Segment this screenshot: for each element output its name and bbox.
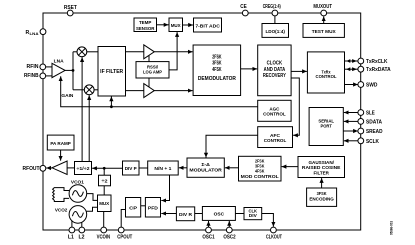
VCO2 [69, 206, 87, 224]
LO line to mixer Q [88, 95, 90, 161]
pin CLKOUT [271, 227, 277, 233]
pin SCLK [358, 138, 364, 144]
chip boundary [43, 13, 361, 230]
div r block [176, 207, 194, 221]
pin SREAD [358, 128, 364, 134]
wire rf divider to pa [67, 167, 74, 169]
svg-text:ENCODING: ENCODING [309, 197, 334, 203]
limiter amp Q [144, 84, 155, 98]
svg-text:RFIN: RFIN [27, 64, 39, 70]
wire CREG stub [274, 16, 276, 24]
svg-text:7-BIT ADC: 7-BIT ADC [195, 24, 220, 30]
svg-text:SREAD: SREAD [366, 129, 383, 135]
wire cdr to afc [291, 78, 299, 135]
mixer Q [84, 85, 94, 95]
n/n+1 block [148, 161, 179, 175]
wire IF to limiter I [126, 51, 144, 53]
svg-text:SLE: SLE [366, 111, 375, 117]
svg-text:MOD CONTROL: MOD CONTROL [241, 174, 279, 180]
RSSI log amp block [136, 62, 169, 78]
svg-text:RFOUT: RFOUT [23, 166, 41, 172]
svg-text:AGC: AGC [269, 106, 279, 112]
wire mixer I to IF filter [87, 51, 98, 53]
wire RSSI to ADC mux [169, 32, 177, 70]
pin MUXOUT [321, 10, 327, 16]
svg-text:2FSK: 2FSK [212, 54, 222, 60]
svg-text:TEMP: TEMP [139, 20, 152, 26]
wire vcoin to mux [103, 212, 105, 228]
svg-text:3FSK: 3FSK [212, 61, 222, 67]
svg-text:05866-001: 05866-001 [389, 221, 393, 235]
wire mixer Q to IF filter [94, 89, 98, 91]
pin RFINB [40, 73, 46, 79]
svg-text:CP: CP [129, 205, 138, 211]
svg-text:RECOVERY: RECOVERY [263, 73, 287, 79]
svg-text:RSET: RSET [64, 5, 78, 11]
svg-text:AND DATA: AND DATA [264, 67, 286, 73]
mixer I [77, 47, 87, 57]
cp block [126, 198, 141, 218]
wire L2 [81, 223, 83, 228]
wire vco1 to mux [87, 194, 98, 201]
serial port block [309, 108, 343, 146]
wire sdata [344, 120, 358, 122]
wire sread [343, 130, 358, 132]
pin OSC2 [226, 227, 232, 233]
wire sigma delta to n divider [179, 167, 187, 169]
svg-text:RFINB: RFINB [24, 73, 39, 79]
wire RFINB stub [46, 75, 52, 77]
LO line to mixer I [81, 57, 83, 161]
wire sclk [344, 140, 358, 142]
svg-text:OSC: OSC [214, 212, 225, 218]
wire demod to cdr [241, 68, 258, 70]
wire pfd to cp [141, 205, 146, 207]
vco mux block [98, 195, 112, 212]
clk div block [244, 208, 262, 220]
svg-text:VCO1: VCO1 [71, 180, 84, 186]
node vco junction [103, 167, 106, 170]
node LNA junction [72, 69, 75, 72]
wire vco2 to mux [86, 207, 97, 211]
test mux block [303, 24, 344, 38]
wire RSSI to amp Q [148, 78, 150, 87]
svg-text:DIV: DIV [249, 213, 258, 219]
svg-text:LDO(1:4): LDO(1:4) [265, 29, 285, 35]
clock and data recovery block [258, 45, 291, 96]
wire limiter Q to demod [154, 90, 192, 92]
svg-text:LNA: LNA [54, 59, 65, 65]
wire osc to divr [195, 213, 203, 215]
wire osc1 to osc [208, 221, 210, 227]
wire IF to limiter Q [126, 90, 144, 92]
svg-text:SDATA: SDATA [366, 119, 382, 125]
pin L2 [79, 227, 85, 233]
wire RFIN stub [46, 66, 52, 68]
svg-text:FILTER: FILTER [313, 170, 329, 176]
svg-text:CREG(1:4): CREG(1:4) [263, 4, 281, 10]
svg-text:CPOUT: CPOUT [117, 234, 133, 240]
pin CPOUT [118, 227, 124, 233]
svg-text:SWD: SWD [366, 83, 378, 89]
wire afc to sigma delta [206, 135, 258, 157]
wire TEST MUX to MUXOUT [323, 16, 325, 23]
svg-text:LNA: LNA [30, 32, 39, 36]
wire temp sensor to mux [157, 24, 169, 26]
svg-text:SERIAL: SERIAL [318, 118, 334, 124]
svg-text:TxRxDATA: TxRxDATA [366, 67, 391, 73]
divide by 1 or 2 block [75, 162, 92, 175]
wire mux to adc [183, 24, 194, 26]
svg-text:CE: CE [240, 4, 247, 10]
svg-text:4FSK: 4FSK [255, 169, 265, 175]
agc control block [258, 100, 291, 121]
pin SDATA [358, 119, 364, 125]
sigma delta modulator block [187, 158, 224, 177]
wire to mixer I [73, 51, 77, 53]
gaussian raised cosine filter block [298, 157, 345, 178]
wire amp I to RSSI [148, 55, 150, 61]
svg-text:L1: L1 [68, 234, 74, 240]
limiter amp I [144, 45, 155, 59]
svg-text:VCOIN: VCOIN [97, 234, 111, 240]
svg-text:CLKOUT: CLKOUT [266, 234, 283, 240]
svg-text:RAISED COSINE: RAISED COSINE [302, 165, 341, 171]
svg-text:MUXOUT: MUXOUT [313, 4, 332, 10]
wire nn1 to divp [139, 167, 148, 169]
PA amplifier [52, 161, 67, 175]
wire pa to rfout [46, 167, 52, 169]
pin VCOIN [101, 227, 107, 233]
wire swd [345, 84, 358, 86]
wire clkdiv to clkout [262, 214, 274, 227]
wire divr to pfd [161, 213, 176, 215]
svg-text:3FSK: 3FSK [255, 164, 265, 170]
wire L1 [71, 221, 73, 227]
wire encoding to gaussian [321, 178, 323, 188]
LDO block [262, 24, 289, 38]
wire div2 to vco mux [103, 186, 105, 195]
wire mod control to sigma delta [225, 167, 239, 169]
wire nn1 to pfd [161, 175, 169, 201]
svg-text:IF FILTER: IF FILTER [100, 69, 123, 75]
wire txrxdata bidirectional [345, 67, 358, 71]
svg-text:TEST MUX: TEST MUX [312, 29, 337, 35]
pa ramp block [47, 135, 74, 150]
svg-text:DIV P: DIV P [125, 166, 138, 172]
svg-text:SCLK: SCLK [366, 139, 379, 145]
svg-text:CONTROL: CONTROL [316, 74, 337, 79]
node agc if branch [110, 105, 113, 108]
svg-text:LOG AMP: LOG AMP [143, 69, 163, 75]
temp sensor block [134, 18, 157, 32]
pin RLNA [40, 29, 46, 35]
demodulator block [193, 45, 241, 96]
wire txrxclk bidirectional [345, 59, 358, 63]
adc mux block [169, 18, 183, 32]
pin OSC1 [206, 227, 212, 233]
svg-text:GAUSSIAN/: GAUSSIAN/ [308, 160, 334, 166]
wire divp to rf divider [92, 167, 122, 169]
divide by 2 block [99, 175, 111, 186]
mod control block [239, 156, 282, 181]
svg-text:GAIN: GAIN [61, 93, 74, 99]
wire sle [344, 112, 358, 114]
svg-text:CLOCK: CLOCK [267, 60, 283, 66]
wire to mixer Q [73, 89, 84, 91]
LNA amplifier [52, 63, 65, 77]
3fsk encoding block [307, 188, 337, 206]
wire cdr to txrx control [291, 70, 307, 72]
svg-text:VCO2: VCO2 [55, 207, 68, 213]
wire osc to clkdiv [235, 213, 244, 215]
7-bit adc block [194, 18, 222, 32]
svg-text:CONTROL: CONTROL [264, 138, 287, 144]
wire junction to div2 [103, 168, 105, 175]
wire limiter I to demod [154, 51, 192, 53]
pin TxRxCLK [358, 58, 364, 64]
svg-text:Σ-Δ: Σ-Δ [201, 162, 210, 168]
pin SLE [358, 110, 364, 116]
svg-text:3FSK: 3FSK [317, 191, 327, 197]
svg-text:MUX: MUX [99, 201, 110, 207]
wire pa ramp to pa [60, 150, 62, 161]
pin CE [242, 10, 248, 16]
wire RX split vertical [72, 52, 74, 90]
svg-text:2FSK: 2FSK [255, 159, 265, 165]
svg-text:÷2: ÷2 [102, 179, 109, 184]
wire agc gain line [61, 76, 258, 106]
svg-text:MODULATOR: MODULATOR [189, 168, 222, 174]
VCO1 [69, 185, 87, 203]
svg-text:PFD: PFD [148, 205, 159, 211]
svg-text:PA RAMP: PA RAMP [50, 141, 71, 147]
pfd block [145, 198, 160, 218]
svg-text:DIV R: DIV R [179, 212, 193, 218]
wire cp to cpout [121, 210, 125, 228]
pin RFIN [40, 64, 46, 70]
svg-text:SENSOR: SENSOR [136, 26, 155, 32]
svg-text:CONTROL: CONTROL [263, 111, 286, 117]
wire gaussian to mod control [282, 166, 298, 168]
svg-text:4FSK: 4FSK [212, 67, 222, 73]
svg-text:OSC1: OSC1 [202, 234, 214, 240]
pin CREG [272, 10, 278, 16]
wire osc2 to osc [228, 221, 230, 227]
pin L1 [69, 227, 75, 233]
txrx control block [307, 52, 344, 93]
pin RFOUT [40, 165, 46, 171]
div p block [123, 161, 140, 175]
svg-text:AFC: AFC [270, 133, 281, 139]
svg-text:N/N + 1: N/N + 1 [154, 166, 171, 172]
svg-text:MUX: MUX [171, 23, 182, 29]
svg-text:OSC2: OSC2 [223, 234, 235, 240]
pin RSET [67, 10, 73, 16]
external inductor [53, 188, 70, 202]
osc block [202, 207, 235, 221]
wire agc to if filter [110, 97, 112, 107]
svg-text:DEMODULATOR: DEMODULATOR [198, 76, 236, 82]
svg-text:÷1/÷2: ÷1/÷2 [77, 166, 90, 171]
pin SWD [358, 82, 364, 88]
IF filter block [98, 47, 126, 97]
wire LNA output [65, 69, 73, 71]
afc control block [258, 127, 293, 148]
svg-text:TxRxCLK: TxRxCLK [366, 59, 388, 65]
svg-text:PORT: PORT [320, 123, 332, 129]
svg-text:L2: L2 [79, 234, 85, 240]
pin TxRxDATA [358, 66, 364, 72]
